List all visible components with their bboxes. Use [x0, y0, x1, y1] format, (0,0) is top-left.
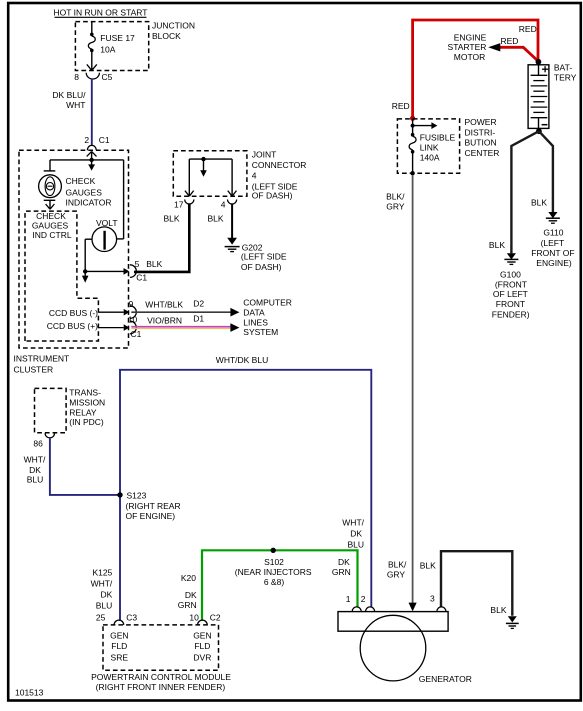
- svg-text:STARTER: STARTER: [448, 42, 487, 52]
- svg-text:TERY: TERY: [554, 73, 577, 83]
- svg-text:FUSE 17: FUSE 17: [100, 33, 135, 43]
- wire BLK/GRY PDC to generator: [412, 175, 414, 605]
- fuse F17 10A: [88, 22, 95, 71]
- wire CCD- inside cluster: [99, 306, 137, 319]
- svg-text:6 &8): 6 &8): [264, 577, 284, 587]
- svg-text:GRY: GRY: [387, 569, 406, 579]
- svg-text:86: 86: [33, 439, 43, 449]
- wire BLK pin5 to joint connector: [134, 203, 189, 272]
- svg-text:BLK: BLK: [489, 240, 505, 250]
- svg-text:GENERATOR: GENERATOR: [419, 674, 472, 684]
- svg-text:LINES: LINES: [243, 317, 268, 327]
- svg-text:GAUGES: GAUGES: [66, 187, 103, 197]
- svg-text:LINK: LINK: [420, 143, 439, 153]
- svg-text:4: 4: [221, 199, 226, 209]
- svg-text:DK BLU/: DK BLU/: [52, 90, 86, 100]
- svg-text:(RIGHT REAR: (RIGHT REAR: [126, 501, 181, 511]
- label 25 / C3: [96, 612, 138, 622]
- svg-text:G100: G100: [500, 270, 521, 280]
- arrow to engine starter motor: [488, 43, 500, 51]
- node junction under C1: [89, 158, 93, 162]
- svg-text:(NEAR INJECTORS: (NEAR INJECTORS: [235, 567, 312, 577]
- svg-text:DK: DK: [185, 590, 197, 600]
- node junction: [83, 269, 87, 273]
- svg-text:DISTRI-: DISTRI-: [465, 127, 496, 137]
- connector bump C2: [198, 620, 208, 625]
- svg-text:1: 1: [346, 594, 351, 604]
- svg-text:GRN: GRN: [332, 567, 351, 577]
- svg-text:COMPUTER: COMPUTER: [243, 297, 292, 307]
- svg-text:DATA: DATA: [243, 307, 265, 317]
- label ENGINE STARTER MOTOR: [448, 32, 487, 62]
- svg-text:9: 9: [129, 299, 134, 309]
- svg-text:FLD: FLD: [194, 641, 210, 651]
- svg-text:17: 17: [174, 199, 184, 209]
- svg-text:K125: K125: [92, 568, 112, 578]
- instrument cluster box: [19, 150, 129, 348]
- svg-text:OF ENGINE): OF ENGINE): [126, 511, 176, 521]
- svg-text:DK: DK: [29, 465, 41, 475]
- transmission relay box: [35, 388, 67, 432]
- splice S123: [117, 492, 122, 497]
- wire DK GRN loop S102: [202, 550, 358, 621]
- svg-text:5: 5: [135, 259, 140, 269]
- svg-text:C3: C3: [126, 612, 137, 622]
- label 10 VIO/BRN D1: [128, 313, 205, 325]
- svg-text:FRONT OF: FRONT OF: [531, 248, 574, 258]
- svg-text:CONNECTOR: CONNECTOR: [252, 160, 307, 170]
- svg-text:DVR: DVR: [193, 653, 211, 663]
- svg-text:BLK: BLK: [208, 214, 224, 224]
- label BLK/ GRY upper: [386, 192, 405, 212]
- svg-text:FENDER): FENDER): [492, 309, 530, 319]
- svg-text:K20: K20: [181, 573, 196, 583]
- svg-text:BLK: BLK: [490, 605, 506, 615]
- svg-text:CHECK: CHECK: [66, 176, 96, 186]
- svg-text:WHT/BLK: WHT/BLK: [145, 300, 183, 310]
- label 17 / 4 / BLK / BLK: [164, 199, 226, 223]
- svg-text:10: 10: [189, 612, 199, 622]
- svg-text:ENGINE: ENGINE: [454, 32, 487, 42]
- powertrain control module box: [103, 625, 219, 670]
- label JOINT CONNECTOR 4: [252, 149, 307, 200]
- svg-text:10A: 10A: [100, 44, 115, 54]
- svg-text:TRANS-: TRANS-: [69, 388, 101, 398]
- power distribution center box: [397, 119, 459, 173]
- label 5 / BLK / C1: [135, 259, 163, 282]
- svg-text:BLK/: BLK/: [388, 560, 407, 570]
- svg-text:SRE: SRE: [111, 653, 129, 663]
- svg-text:(FRONT: (FRONT: [495, 279, 527, 289]
- svg-text:POWER: POWER: [465, 117, 497, 127]
- connector C5 cup: [86, 73, 99, 79]
- svg-text:S102: S102: [264, 557, 284, 567]
- svg-text:CCD BUS (+): CCD BUS (+): [47, 321, 98, 331]
- svg-text:BLU: BLU: [27, 475, 44, 485]
- svg-text:(RIGHT FRONT INNER FENDER): (RIGHT FRONT INNER FENDER): [96, 682, 226, 692]
- svg-text:VIO/BRN: VIO/BRN: [147, 316, 182, 326]
- ground G100: [504, 253, 518, 264]
- battery: [528, 59, 549, 129]
- svg-text:2: 2: [361, 594, 366, 604]
- pin 4 drop with open arrow: [228, 159, 237, 196]
- label CHECK GAUGES INDICATOR: [66, 176, 112, 207]
- open arrow below lamp: [46, 200, 55, 209]
- wire WHT/DK BLU main loop: [120, 370, 371, 608]
- svg-text:C5: C5: [102, 72, 113, 82]
- svg-text:RED: RED: [501, 36, 519, 46]
- label HOT IN RUN OR START: [54, 8, 148, 18]
- label S123 (RIGHT REAR OF ENGINE): [126, 490, 181, 521]
- wire RED to starter motor: [500, 47, 539, 61]
- label WHT/ DK BLU: [24, 454, 46, 484]
- svg-text:FLD: FLD: [111, 641, 127, 651]
- svg-text:CLUSTER: CLUSTER: [14, 365, 54, 375]
- wire BLK generator pin3 to ground: [441, 551, 512, 616]
- svg-text:DK: DK: [350, 529, 362, 539]
- wire right leg to volt gauge: [117, 160, 124, 239]
- svg-text:OF DASH): OF DASH): [252, 191, 293, 201]
- svg-text:C1: C1: [131, 329, 142, 339]
- svg-text:JOINT: JOINT: [252, 149, 277, 159]
- joint connector cup 4: [228, 200, 237, 205]
- check gauges ind ctrl box: [25, 211, 98, 341]
- pin 5 arrow and arc: [124, 265, 137, 278]
- wire BLK to G202: [231, 204, 233, 238]
- ground right of generator: [506, 616, 519, 628]
- svg-text:FUSIBLE: FUSIBLE: [420, 132, 456, 142]
- wire DK BLU/WHT: [91, 79, 93, 146]
- label POWERTRAIN CONTROL MODULE: [91, 672, 231, 692]
- label CHECK GAUGES IND CTRL: [32, 211, 72, 240]
- fusible link 140A: [409, 133, 416, 176]
- label K125 WHT/ DK BLU: [91, 568, 113, 611]
- svg-text:WHT/DK BLU: WHT/DK BLU: [216, 355, 268, 365]
- svg-text:BUTION: BUTION: [465, 138, 497, 148]
- svg-text:JUNCTION: JUNCTION: [152, 20, 195, 30]
- svg-text:FRONT: FRONT: [496, 299, 525, 309]
- svg-text:RED: RED: [392, 101, 410, 111]
- ground G110: [546, 212, 560, 223]
- wire CCD+ inside cluster: [99, 321, 137, 334]
- svg-text:BLK: BLK: [146, 259, 162, 269]
- down arrow stub: [88, 160, 95, 171]
- svg-text:C1: C1: [136, 272, 147, 282]
- svg-text:BLK: BLK: [164, 214, 180, 224]
- label G202 (LEFT SIDE OF DASH): [241, 242, 287, 272]
- label 9 WHT/BLK D2: [129, 299, 205, 310]
- svg-text:CCD BUS (-): CCD BUS (-): [49, 308, 98, 318]
- up arrow into cluster: [87, 152, 97, 160]
- svg-text:OF DASH): OF DASH): [241, 262, 282, 272]
- generator body: [338, 612, 448, 681]
- label FUSE 17 / 10A: [100, 33, 135, 54]
- svg-text:D2: D2: [193, 299, 204, 309]
- svg-text:BLU: BLU: [96, 600, 113, 610]
- wire to volt branch: [92, 159, 124, 161]
- label BLK/ GRY lower: [387, 560, 407, 580]
- label WHT/ DK BLU (generator): [342, 518, 364, 550]
- wire down to lamp: [49, 160, 51, 171]
- label BAT-TERY: [554, 62, 577, 82]
- svg-text:(LEFT SIDE: (LEFT SIDE: [241, 252, 287, 262]
- svg-text:CHECK: CHECK: [36, 211, 66, 221]
- open arrow out of junction block: [87, 64, 97, 70]
- svg-text:WHT/: WHT/: [24, 454, 46, 464]
- svg-text:S123: S123: [127, 490, 147, 500]
- node battery negative: [536, 128, 542, 134]
- svg-text:INSTRUMENT: INSTRUMENT: [14, 354, 70, 364]
- label DK GRN right: [332, 557, 351, 577]
- svg-text:GEN: GEN: [193, 630, 211, 640]
- svg-text:GRY: GRY: [386, 202, 405, 212]
- svg-text:IND CTRL: IND CTRL: [32, 230, 71, 240]
- generator pin bumps: [352, 607, 446, 612]
- svg-text:25: 25: [96, 612, 106, 622]
- label COMPUTER DATA LINES SYSTEM: [243, 297, 292, 337]
- pin 17 drop with open arrow: [185, 159, 194, 196]
- connector C1 bump: [87, 145, 96, 150]
- check gauges indicator lamp: [39, 171, 62, 200]
- label FUSIBLE LINK 140A: [420, 132, 456, 162]
- label INSTRUMENT CLUSTER: [14, 354, 70, 375]
- svg-text:3: 3: [430, 594, 435, 604]
- wire WHT/DK BLU from relay to S123: [50, 438, 118, 495]
- svg-text:BAT-: BAT-: [554, 62, 572, 72]
- label GEN FLD DVR: [193, 630, 211, 662]
- connector bump C3: [114, 620, 124, 625]
- svg-text:C2: C2: [210, 612, 221, 622]
- connector cup pin 86: [45, 433, 54, 438]
- svg-text:BLU: BLU: [347, 540, 364, 550]
- label 1 2 3: [346, 594, 435, 605]
- svg-text:DK: DK: [338, 557, 350, 567]
- label S102 (NEAR INJECTORS 6 &8): [235, 557, 312, 587]
- label 8 / C5: [74, 72, 112, 82]
- svg-text:C1: C1: [99, 135, 110, 145]
- svg-text:VOLT: VOLT: [96, 218, 118, 228]
- svg-text:RELAY: RELAY: [69, 407, 97, 417]
- node red junction at PDC: [410, 116, 415, 121]
- wire BLK battery to G110: [539, 131, 553, 212]
- svg-text:CENTER: CENTER: [465, 148, 500, 158]
- label POWER DISTRI-BUTION CENTER: [465, 117, 500, 158]
- svg-text:WHT/: WHT/: [91, 579, 113, 589]
- svg-text:BLK/: BLK/: [386, 192, 405, 202]
- svg-text:4: 4: [252, 170, 257, 180]
- svg-text:POWERTRAIN CONTROL MODULE: POWERTRAIN CONTROL MODULE: [91, 672, 231, 682]
- down arrow stub: [82, 271, 89, 282]
- wire WHT/BLK to computer: [131, 308, 239, 317]
- svg-text:HOT IN RUN OR START: HOT IN RUN OR START: [54, 8, 148, 18]
- svg-text:140A: 140A: [420, 153, 440, 163]
- wire from volt gauge down: [85, 239, 92, 271]
- svg-text:ENGINE): ENGINE): [536, 258, 572, 268]
- svg-text:WHT: WHT: [66, 100, 85, 110]
- ground G202: [225, 238, 240, 252]
- wire to lamp branch: [50, 159, 92, 161]
- label K20 DK GRN left: [178, 573, 197, 610]
- svg-text:MISSION: MISSION: [69, 397, 105, 407]
- svg-text:RED: RED: [519, 24, 537, 34]
- svg-text:G110: G110: [543, 228, 563, 238]
- label 10 / C2: [189, 612, 220, 622]
- wire BLK battery to G100: [511, 131, 539, 253]
- label GEN FLD SRE: [110, 630, 128, 662]
- svg-text:OF LEFT: OF LEFT: [493, 289, 528, 299]
- svg-text:(LEFT: (LEFT: [541, 238, 565, 248]
- svg-text:SYSTEM: SYSTEM: [243, 327, 278, 337]
- wire WHT/DK BLU cluster leg down to PCM: [119, 494, 121, 621]
- splice S102: [271, 548, 276, 553]
- svg-text:BLOCK: BLOCK: [152, 31, 181, 41]
- junction block box: [75, 22, 148, 71]
- label JUNCTION BLOCK: [152, 20, 195, 40]
- svg-text:(IN PDC): (IN PDC): [69, 417, 104, 427]
- svg-text:101513: 101513: [15, 688, 44, 698]
- wire RED battery feed: [413, 20, 538, 118]
- label TRANS-MISSION RELAY (IN PDC): [69, 388, 105, 428]
- wire to pin 5: [85, 270, 123, 272]
- label 2 / C1: [84, 135, 110, 145]
- svg-text:WHT/: WHT/: [342, 518, 364, 528]
- joint connector internal bus: [189, 157, 232, 177]
- svg-text:GRN: GRN: [178, 600, 197, 610]
- svg-text:DK: DK: [100, 590, 112, 600]
- joint connector cup 17: [185, 200, 194, 205]
- svg-text:MOTOR: MOTOR: [454, 52, 485, 62]
- label DK BLU/ WHT: [52, 90, 86, 110]
- PDC internal feed with arrow: [411, 119, 438, 133]
- svg-text:8: 8: [74, 72, 79, 82]
- svg-text:D1: D1: [193, 313, 204, 323]
- svg-text:BLK: BLK: [531, 198, 547, 208]
- svg-text:2: 2: [84, 135, 89, 145]
- joint connector 4 box: [173, 151, 247, 196]
- svg-text:10: 10: [128, 315, 138, 325]
- svg-text:GEN: GEN: [110, 630, 128, 640]
- svg-text:BLK: BLK: [420, 560, 436, 570]
- volt gauge: [92, 227, 117, 252]
- arrow into generator: [409, 603, 417, 612]
- svg-text:INDICATOR: INDICATOR: [66, 197, 112, 207]
- wire VIO/BRN to computer: [131, 323, 239, 332]
- label G100 (FRONT OF LEFT FRONT FENDER): [492, 270, 530, 320]
- label G110 (LEFT FRONT OF ENGINE): [531, 228, 574, 269]
